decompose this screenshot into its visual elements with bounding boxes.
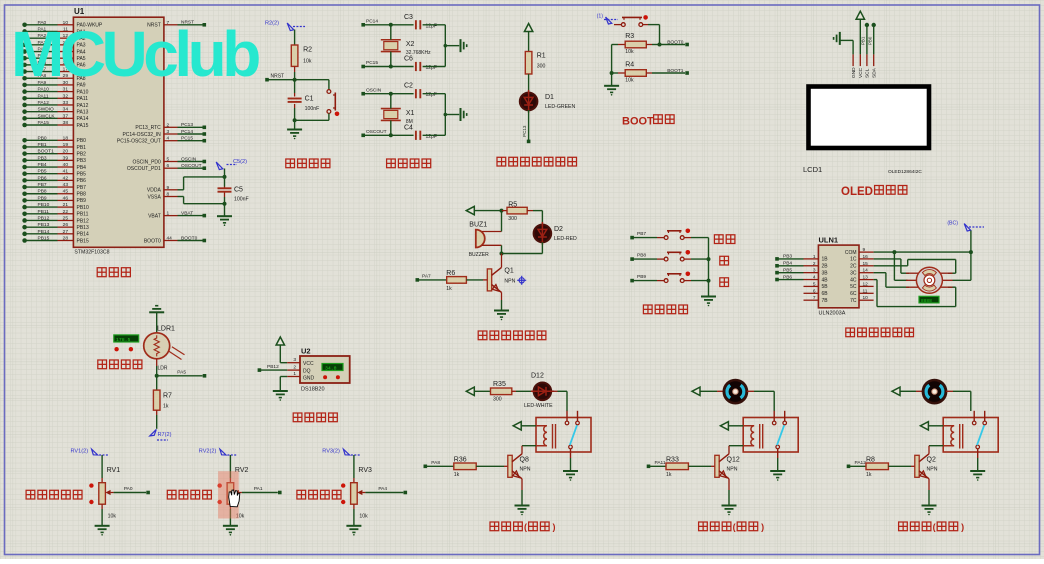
chip ULN1 pin 2C — [859, 265, 874, 267]
svg-text:PB5: PB5 — [783, 267, 792, 273]
wire VDDA to C5 — [178, 189, 184, 191]
svg-text:PA12: PA12 — [77, 103, 89, 109]
wire X1 top — [390, 94, 392, 109]
resistor R35 — [491, 388, 512, 395]
svg-text:Q2: Q2 — [927, 457, 936, 464]
svg-text:27: 27 — [63, 229, 69, 235]
terminal OSCIN — [361, 92, 365, 96]
svg-text:PB5: PB5 — [38, 169, 47, 175]
chip U1 pin VSSA (8) — [164, 196, 178, 198]
svg-text:LED-RED: LED-RED — [554, 236, 577, 242]
transistor Q1 — [487, 269, 491, 291]
svg-text:C2: C2 — [404, 83, 413, 90]
svg-text:3C: 3C — [850, 271, 857, 277]
svg-text:9: 9 — [167, 185, 170, 191]
label 颗粒物调节 — [26, 490, 35, 499]
svg-text:U1: U1 — [74, 7, 85, 16]
svg-text:34: 34 — [63, 107, 69, 113]
svg-text:1k: 1k — [446, 286, 452, 292]
wire C2 right — [423, 93, 446, 95]
display (stepper speed) — [919, 296, 939, 303]
wire 3C to motor — [874, 272, 886, 274]
wire RV1 bottom — [101, 504, 103, 509]
svg-text:ULN1: ULN1 — [819, 236, 839, 245]
wire 2C to motor — [874, 265, 908, 267]
wire R2 top — [294, 30, 296, 46]
svg-text:25: 25 — [63, 215, 69, 221]
svg-text:3: 3 — [167, 129, 170, 135]
terminal OSCOUT — [361, 134, 365, 138]
ground (OLED, sideways) — [839, 32, 841, 45]
motor fan (fire) — [923, 380, 946, 403]
ground (C5) — [217, 215, 232, 217]
chip ULN1 pin 3C — [859, 272, 874, 274]
terminal PC15 — [361, 65, 365, 69]
svg-text:OSCOUT: OSCOUT — [366, 129, 387, 135]
svg-text:PB7: PB7 — [77, 185, 87, 191]
svg-text:X2: X2 — [406, 41, 415, 48]
label 继电器(照明) — [490, 522, 499, 531]
resistor R8 — [847, 465, 851, 469]
ground (Q12) — [722, 505, 737, 507]
resistor R33 — [647, 465, 651, 469]
svg-text:PB11: PB11 — [77, 212, 89, 218]
wire R7 bottom — [156, 410, 158, 415]
chip U1 pin PA10 (31) wire — [22, 89, 27, 94]
wire GND to ground — [280, 376, 287, 378]
ground (relay3) — [970, 470, 985, 472]
chip U1 pin PA0-WKUP (10) wire — [22, 23, 27, 28]
chip U1 pin VBAT (1) — [164, 215, 178, 217]
svg-text:PB12: PB12 — [38, 215, 50, 221]
resistor R2 — [291, 45, 298, 66]
svg-text:10k: 10k — [108, 514, 117, 520]
chip U1 pin NRST (7) — [164, 24, 178, 26]
svg-text:PB1: PB1 — [38, 142, 47, 148]
svg-text:PC14-OSC32_IN: PC14-OSC32_IN — [122, 132, 161, 138]
wire COM to motor left — [893, 252, 895, 280]
wire RV1 top — [101, 455, 103, 478]
resistor R4 — [612, 72, 618, 74]
chip U1 pin PB11 (22) wire — [22, 211, 27, 216]
svg-text:): ) — [761, 522, 764, 532]
wire C4 right — [423, 134, 446, 136]
svg-text:42: 42 — [63, 175, 69, 181]
svg-text:PC13: PC13 — [522, 125, 527, 137]
wire relay2 coil to Q12 — [729, 445, 743, 447]
wire node to R7 — [156, 376, 158, 390]
svg-text:PB10: PB10 — [77, 205, 89, 211]
svg-text:(BC): (BC) — [947, 221, 958, 227]
ground (Q8) — [515, 505, 530, 507]
relay RL1 — [536, 418, 591, 453]
svg-text:PA10: PA10 — [77, 89, 89, 95]
wire RV3 bottom — [353, 504, 355, 509]
svg-text:7B: 7B — [822, 298, 829, 304]
wire C1 bottom — [294, 104, 296, 108]
svg-text:PB8: PB8 — [38, 189, 47, 195]
svg-text:X1: X1 — [406, 110, 415, 117]
wire COM to motor right — [970, 252, 972, 280]
svg-text:(: ( — [524, 522, 527, 532]
svg-text:34.0: 34.0 — [325, 365, 337, 371]
svg-text:NPN: NPN — [520, 467, 531, 473]
svg-text:RV1(2): RV1(2) — [70, 449, 88, 455]
svg-text:RV2(2): RV2(2) — [199, 449, 217, 455]
svg-text:OSCIN_PD0: OSCIN_PD0 — [132, 159, 161, 165]
ground (RV1) — [95, 525, 110, 527]
ground (LDR top) — [149, 311, 164, 313]
ground (Q2) — [922, 505, 937, 507]
chip U1 pin PA4 (14) wire — [22, 49, 27, 54]
svg-text:PA11: PA11 — [77, 96, 89, 102]
wire R5 to D2 — [533, 210, 542, 212]
svg-text:OSCIN: OSCIN — [366, 87, 382, 93]
svg-text:PC15: PC15 — [366, 60, 378, 66]
svg-text:1k: 1k — [866, 472, 872, 478]
svg-text:U2: U2 — [301, 347, 311, 356]
svg-text:PA14: PA14 — [77, 116, 89, 122]
terminal PC13 (bottom) — [527, 140, 531, 144]
svg-text:PA7: PA7 — [422, 273, 431, 279]
svg-text:PC13: PC13 — [181, 122, 193, 128]
svg-text:NPN: NPN — [927, 467, 938, 473]
svg-text:2: 2 — [813, 261, 816, 267]
power symbol (R35) — [466, 387, 474, 395]
svg-text:PB13: PB13 — [77, 225, 89, 231]
wire 1C to motor — [874, 258, 901, 260]
svg-text:OLED12864I2C: OLED12864I2C — [888, 169, 922, 175]
motor fan (air conditioner) — [724, 380, 747, 403]
svg-text:BOOT0: BOOT0 — [181, 235, 198, 241]
svg-text:43: 43 — [63, 182, 69, 188]
svg-text:PA11: PA11 — [655, 460, 666, 466]
svg-text:PB10: PB10 — [38, 202, 50, 208]
ground (U2) — [273, 390, 288, 392]
svg-text:39: 39 — [63, 155, 69, 161]
wire D2 bottom — [541, 242, 543, 253]
chip U1 pin PB8 (45) wire — [22, 191, 27, 196]
wire C6 right — [423, 66, 446, 68]
svg-text:COM: COM — [845, 250, 857, 256]
wire emitter (Q12) — [728, 479, 730, 490]
terminal PB1 (SCL) — [865, 23, 869, 27]
cursor (hand) — [229, 490, 240, 507]
svg-text:C4: C4 — [404, 124, 413, 131]
svg-text:PB15: PB15 — [38, 236, 50, 242]
chip U1 pin PA13 (34) wire — [22, 109, 27, 114]
chip U1 pin PB3 (39) wire — [22, 158, 27, 163]
chip U1 pin PA8 (29) wire — [22, 76, 27, 81]
svg-text:STM32F103C8: STM32F103C8 — [74, 250, 109, 256]
svg-text:PB9: PB9 — [77, 198, 87, 204]
svg-text:PA13: PA13 — [77, 109, 89, 115]
ground (relay2) — [770, 470, 785, 472]
svg-text:PC13_RTC: PC13_RTC — [135, 125, 161, 131]
svg-text:PB0: PB0 — [868, 36, 873, 45]
svg-text:4B: 4B — [822, 277, 829, 283]
svg-text:Q8: Q8 — [520, 457, 529, 464]
ground (sideways) — [460, 39, 462, 52]
chip U1 pin PA6 (16) wire — [22, 63, 27, 68]
svg-text:PB12: PB12 — [77, 218, 89, 224]
ground (relay1) — [563, 470, 578, 472]
svg-text:BOOT1: BOOT1 — [38, 149, 55, 155]
svg-text:DS18B20: DS18B20 — [301, 386, 325, 392]
svg-text:R2: R2 — [303, 47, 312, 54]
svg-text:C3: C3 — [404, 14, 413, 21]
potentiometer RV1 — [99, 483, 106, 505]
svg-text:LED-GREEN: LED-GREEN — [545, 104, 576, 110]
label 光照调节 — [98, 360, 107, 369]
wire X2 bottom — [390, 52, 392, 67]
resistor R6 — [417, 279, 446, 281]
svg-text:PB12: PB12 — [267, 364, 279, 370]
svg-text:1C: 1C — [850, 257, 857, 263]
svg-text:PC15: PC15 — [181, 136, 193, 142]
LCD1 pin SDA — [873, 54, 875, 66]
svg-text:22: 22 — [63, 209, 69, 215]
wire C3 right — [423, 24, 446, 26]
svg-text:PB3: PB3 — [783, 254, 792, 260]
chip U1 pin PB9 (46) wire — [22, 198, 27, 203]
label 继电器(灭火) — [899, 522, 908, 531]
svg-text:BOOT0: BOOT0 — [144, 238, 161, 244]
chip U1 pin PB10 (21) wire — [22, 205, 27, 210]
svg-text:PA11: PA11 — [38, 93, 49, 99]
svg-text:10: 10 — [863, 295, 869, 301]
svg-text:16: 16 — [863, 254, 869, 260]
ground (RV2) — [223, 525, 238, 527]
svg-text:SCL: SCL — [865, 68, 871, 78]
power symbol (buzzer) — [466, 206, 474, 214]
svg-text:5B: 5B — [822, 284, 829, 290]
svg-text:R33: R33 — [666, 456, 679, 463]
crystal X1 — [381, 108, 401, 110]
wire collector — [501, 254, 503, 268]
chip U2 pin DQ — [287, 369, 300, 371]
LCD1 pin SCL — [866, 54, 868, 66]
chip ULN1 pin 4B — [804, 279, 819, 281]
actuator dots (U2) — [323, 375, 327, 379]
terminal PB12 — [258, 368, 262, 372]
chip U1 pin VDDA (9) — [164, 189, 178, 191]
svg-text:NRST: NRST — [271, 74, 285, 80]
wire RV3 top — [353, 455, 355, 478]
wire emitter (Q2) — [928, 479, 930, 490]
svg-text:OSCOUT_PD1: OSCOUT_PD1 — [127, 166, 161, 172]
ground (buttons) — [701, 296, 716, 298]
wire buttons common — [708, 238, 710, 296]
svg-text:BOOT: BOOT — [622, 115, 654, 127]
svg-text:28: 28 — [63, 236, 69, 242]
chip ULN1 pin COM — [859, 251, 874, 253]
wire PA0 — [114, 492, 147, 494]
label 测温模块 — [293, 413, 302, 422]
wire COM — [874, 251, 971, 253]
svg-text:18: 18 — [63, 135, 69, 141]
label 设置 — [714, 235, 723, 244]
svg-text:1: 1 — [293, 371, 296, 377]
wire D12 to relay — [551, 390, 558, 392]
svg-text:PB7: PB7 — [38, 182, 47, 188]
svg-text:BUZ1: BUZ1 — [469, 222, 487, 229]
svg-text:20: 20 — [63, 149, 69, 155]
LDR1 — [144, 333, 170, 359]
chip ULN1 pin 1C — [859, 258, 874, 260]
wire 4C to motor — [874, 279, 877, 281]
svg-text:LDR: LDR — [158, 366, 168, 372]
svg-text:PA1: PA1 — [254, 486, 263, 492]
svg-text:37: 37 — [63, 113, 69, 119]
svg-text:4: 4 — [813, 275, 816, 281]
svg-text:PB9: PB9 — [38, 195, 47, 201]
motor stepper — [906, 272, 919, 274]
LED D1 — [520, 93, 538, 111]
chip U1 pin PB0 (18) wire — [22, 138, 27, 143]
chip ULN1 pin 5C — [859, 285, 874, 287]
svg-text:SDA: SDA — [872, 67, 878, 78]
chip ULN1 pin 7B — [804, 299, 819, 301]
svg-text:VBAT: VBAT — [181, 210, 193, 216]
svg-text:PC14: PC14 — [366, 19, 378, 25]
wire emitter (Q8) — [521, 479, 523, 490]
svg-text:PA4: PA4 — [378, 486, 387, 492]
wire to ground — [445, 45, 459, 47]
button (reset) — [327, 90, 331, 94]
power symbol (OLED VCC) — [856, 11, 864, 19]
label 程序运行指示灯 — [497, 157, 506, 166]
svg-text:PB6: PB6 — [38, 175, 47, 181]
chip U1 pin PA12 (33) wire — [22, 103, 27, 108]
relay RL2 — [743, 418, 798, 453]
svg-text:PB0: PB0 — [38, 135, 47, 141]
svg-text:R8: R8 — [866, 456, 875, 463]
svg-text:10k: 10k — [625, 49, 634, 55]
wire relay1 contact to ground — [570, 458, 572, 471]
chip U1 pin PB12 (25) wire — [22, 218, 27, 223]
label 四项步进电机 — [846, 328, 855, 337]
svg-text:Q1: Q1 — [504, 268, 513, 275]
svg-text:RV1: RV1 — [107, 467, 121, 474]
svg-text:2: 2 — [167, 122, 170, 128]
svg-text:PB8: PB8 — [77, 192, 87, 198]
svg-text:RV3(2): RV3(2) — [322, 449, 340, 455]
svg-text:10k: 10k — [303, 59, 312, 65]
svg-text:PA15: PA15 — [77, 123, 89, 129]
svg-text:100nF: 100nF — [305, 106, 320, 112]
svg-text:LDR1: LDR1 — [157, 326, 175, 333]
svg-text:OSCIN: OSCIN — [181, 156, 197, 162]
ground (RV3) — [346, 525, 361, 527]
svg-text:12: 12 — [863, 281, 869, 287]
svg-text:C6: C6 — [404, 56, 413, 63]
svg-text:VBAT: VBAT — [148, 213, 161, 219]
svg-text:PB9: PB9 — [637, 274, 646, 280]
svg-text:6: 6 — [167, 163, 170, 169]
svg-text:R6: R6 — [446, 270, 455, 277]
capacitor C1 — [288, 98, 302, 100]
wire relay1 coil to Q8 — [522, 445, 536, 447]
svg-text:5C: 5C — [850, 284, 857, 290]
chip U1 pin PC13_RTC (2) — [164, 126, 178, 128]
chip U1 pin OSCOUT_PD1 (6) — [164, 167, 178, 169]
wire R2 to NRST node — [294, 66, 296, 72]
svg-text:R7(2): R7(2) — [158, 432, 172, 438]
chip U1 pin PB13 (26) wire — [22, 225, 27, 230]
svg-text:PB15: PB15 — [77, 238, 89, 244]
svg-text:R2(2): R2(2) — [265, 21, 279, 27]
resistor R5 — [502, 210, 508, 212]
chip U1 pin PA1 (11) wire — [22, 29, 27, 34]
svg-text:VCC: VCC — [858, 67, 864, 78]
chip ULN1 pin 6B — [804, 292, 819, 294]
svg-text:33: 33 — [63, 100, 69, 106]
wire PC15 row — [363, 66, 413, 68]
chip U1 pin PA9 (30) wire — [22, 83, 27, 88]
wire OSCIN row — [363, 93, 413, 95]
chip U1 pin PB15 (28) wire — [22, 238, 27, 243]
wire button bottom — [328, 113, 330, 120]
label 加 — [720, 256, 729, 265]
chip U1 pin PC15-OSC32_OUT (4) — [164, 140, 178, 142]
LED D2 — [534, 225, 552, 243]
LCD1 pin VCC — [859, 54, 861, 66]
svg-text:PB3: PB3 — [77, 158, 87, 164]
svg-text:PB14: PB14 — [77, 232, 89, 238]
button PB7 — [630, 236, 634, 240]
marker (Q1 select) — [517, 276, 526, 285]
svg-text:RV3: RV3 — [358, 467, 372, 474]
svg-text:10k: 10k — [625, 77, 634, 83]
chip U1 pin PA14 (37) wire — [22, 116, 27, 121]
svg-text:R3: R3 — [625, 33, 634, 40]
svg-text:PB11: PB11 — [38, 209, 50, 215]
svg-text:(: ( — [933, 522, 936, 532]
svg-text:C5: C5 — [234, 187, 243, 194]
wire relay2 contact to ground — [777, 458, 779, 471]
svg-text:MCUclub: MCUclub — [11, 18, 259, 90]
svg-text:PB8: PB8 — [637, 253, 646, 259]
resistor R7 — [153, 390, 160, 410]
svg-text:C1: C1 — [305, 96, 314, 103]
svg-text:4: 4 — [167, 136, 170, 142]
svg-text:PA0: PA0 — [124, 486, 133, 492]
wire R1 to D1 — [528, 74, 530, 93]
svg-text:D1: D1 — [545, 94, 554, 101]
svg-text:38: 38 — [63, 120, 69, 126]
svg-text:8: 8 — [167, 192, 170, 198]
svg-text:R7: R7 — [163, 393, 172, 400]
wire to ground — [445, 114, 459, 116]
svg-text:1k: 1k — [454, 472, 460, 478]
LCD1 display body — [809, 87, 930, 149]
power symbol (relay2 coil) — [720, 422, 728, 430]
display (temperature) — [322, 364, 343, 371]
svg-text:6: 6 — [813, 288, 816, 294]
chip U1 pin PC14-OSC32_IN (3) — [164, 133, 178, 135]
chip U1 pin PB14 (27) wire — [22, 232, 27, 237]
svg-text:7C: 7C — [850, 298, 857, 304]
display (light value) — [114, 335, 139, 342]
svg-text:LCD1: LCD1 — [803, 165, 822, 174]
chip ULN1 pin 1B — [804, 258, 819, 260]
svg-text:R5: R5 — [508, 201, 517, 208]
chip U1 pin PB2 (20) wire — [22, 151, 27, 156]
svg-text:1k: 1k — [163, 404, 169, 410]
svg-text:OLED: OLED — [841, 186, 873, 198]
wire X1 bottom — [390, 120, 392, 135]
